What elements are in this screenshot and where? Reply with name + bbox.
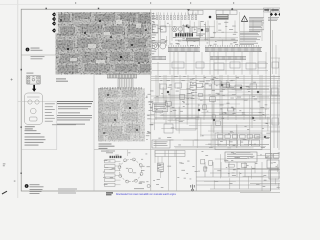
long verticals	[158, 52, 262, 133]
component boxes row	[172, 62, 266, 70]
component cluster mid	[164, 108, 234, 133]
dip row label	[196, 34, 205, 37]
drum section header text	[106, 151, 115, 154]
bottom right wires	[204, 153, 279, 189]
schematic box bottom right	[225, 152, 257, 162]
section divider vertical left	[93, 75, 95, 192]
head drum diagram	[118, 158, 143, 183]
warning notes text	[249, 17, 264, 31]
note icon bottom left	[25, 184, 29, 188]
header table 2	[216, 10, 237, 14]
mechanism unit outline	[24, 93, 42, 124]
section divider vertical center	[150, 9, 152, 191]
upper right tiny labels	[152, 21, 238, 45]
right edge schematic content	[271, 30, 281, 150]
section divider horizontal lower	[94, 149, 271, 151]
border frame	[21, 9, 270, 191]
vertical wires mid	[156, 75, 266, 120]
page background	[0, 0, 280, 198]
extra horizontal wires right	[152, 83, 280, 139]
note text bottom left	[30, 184, 44, 194]
PCB layout board (B) component side	[98, 88, 145, 141]
drum left connector boxes	[105, 160, 121, 187]
misc symbols mid	[153, 25, 210, 33]
connector block CN	[118, 79, 133, 89]
long rails row	[152, 64, 280, 149]
PCB (B) top pin row	[101, 87, 142, 90]
drum top connector line	[126, 150, 128, 156]
wires around transformer	[155, 150, 162, 178]
highlighted label row	[186, 38, 200, 41]
note box mid left	[153, 103, 168, 111]
frame tick marks	[11, 8, 234, 174]
diamond marker	[208, 15, 211, 18]
IC block lower right	[215, 133, 262, 150]
divider small box left	[18, 102, 57, 150]
notes divider vertical	[239, 12, 241, 46]
caption small under PD board (B)	[101, 150, 109, 153]
IC pin header row 1	[168, 47, 200, 51]
caption mechanism	[25, 126, 35, 129]
caption PD board (B)	[99, 144, 115, 149]
pointer line to PCB (A)	[21, 54, 55, 56]
note box 2 text	[154, 142, 168, 146]
double bus line	[155, 118, 270, 119]
top edge section marks	[75, 2, 234, 4]
title block dark text	[264, 9, 279, 11]
dense cluster boxes	[191, 81, 230, 102]
notes text 2	[240, 32, 261, 46]
note box text	[154, 105, 166, 109]
dark label block	[216, 14, 229, 20]
scan paper edge left	[17, 0, 19, 198]
mid notes header lines	[57, 101, 93, 104]
footer symbol	[191, 185, 194, 191]
PCB B side pin labels	[146, 91, 155, 140]
PCB layout board (A) conductor side	[56, 12, 152, 74]
bottom mid tiny labels	[153, 161, 198, 188]
PCB (A) top-left light notch	[56, 12, 59, 33]
note box 2	[152, 140, 170, 148]
transformer T601	[158, 163, 164, 172]
margin tiny marks	[3, 164, 16, 182]
title block top right	[264, 8, 281, 12]
double dot marker	[186, 25, 188, 27]
footer page number	[106, 192, 113, 195]
switch unit top view	[26, 73, 41, 85]
dense cluster labels	[181, 78, 235, 101]
note text RP block	[31, 48, 43, 51]
upper right wires	[159, 20, 238, 46]
PCB (A) bottom edge connector	[107, 74, 137, 78]
scan paper edge top	[0, 4, 280, 6]
mid right component boxes	[156, 94, 234, 126]
PCB (A) mounting hole markers	[52, 12, 56, 32]
mid notes lines 2	[58, 106, 91, 113]
drum bottom label	[134, 187, 144, 190]
top right tiny text	[268, 17, 279, 21]
bottom right boxes	[201, 159, 247, 171]
mid right wires	[153, 83, 269, 148]
svg-text:Downloaded from www manualslib: Downloaded from www manualslib com manua…	[116, 192, 176, 196]
IC pin header row 2	[205, 47, 262, 51]
horizontal bus wires mid	[151, 77, 280, 124]
component row mid	[160, 83, 257, 90]
component symbol row top	[153, 13, 197, 20]
junction dots mid	[167, 84, 267, 139]
header table 1	[188, 10, 203, 14]
circled number marker	[147, 184, 150, 187]
pin number rows	[169, 45, 260, 46]
dip switch row	[175, 33, 193, 36]
pin header small row 3	[152, 56, 166, 59]
bus lines bottom right	[196, 162, 280, 193]
black arrow down	[32, 85, 36, 92]
legend list	[45, 103, 55, 121]
section divider horizontal mid	[94, 74, 151, 76]
parts list text	[25, 130, 46, 145]
vertical wires upper right	[160, 21, 266, 75]
note text RP block lower	[31, 56, 45, 59]
mid right tiny labels	[156, 76, 271, 148]
pen mark bottom left	[2, 191, 7, 194]
pin label strip left	[152, 13, 156, 54]
box text	[227, 154, 253, 159]
note line above parts list	[52, 123, 76, 126]
note icon RP block	[26, 48, 30, 52]
drum header boxes	[110, 156, 122, 158]
pin header small row 4	[210, 56, 246, 59]
signal table	[155, 151, 185, 157]
divider bottom verticals	[168, 150, 170, 191]
mid notes lines 3	[57, 115, 92, 125]
small boxes right edge	[261, 162, 263, 191]
asterisk marks	[270, 13, 282, 16]
drum motor icon	[152, 41, 166, 49]
drum area tiny labels	[103, 153, 150, 185]
caption PD board (A)	[56, 78, 68, 81]
note text bottom left 2	[58, 189, 77, 194]
bottom right tiny labels	[198, 151, 281, 187]
warning triangle	[241, 16, 247, 22]
